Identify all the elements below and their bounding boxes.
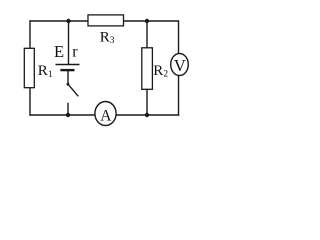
svg-text:E: E: [54, 42, 64, 61]
resistor R3: [88, 15, 124, 26]
ammeter A: [95, 102, 116, 126]
battery E,r short thick plate: [60, 69, 74, 71]
node top R2 junction: [145, 19, 149, 23]
node bottom switch junction: [66, 113, 70, 117]
switch pivot: [67, 83, 70, 86]
battery E,r long plate: [56, 64, 80, 66]
wire switch to bottom: [67, 103, 69, 115]
svg-text:A: A: [100, 108, 112, 125]
wire left: [29, 20, 31, 115]
svg-text:r: r: [72, 44, 78, 61]
wire top: [29, 20, 178, 22]
resistor R2: [142, 48, 153, 90]
node bottom R2 junction: [145, 113, 149, 117]
svg-text:V: V: [174, 56, 186, 75]
switch blade: [68, 84, 78, 96]
node top battery junction: [66, 19, 70, 23]
wire battery branch upper: [68, 21, 70, 65]
voltmeter V: [171, 54, 189, 76]
wire bottom: [29, 114, 179, 116]
resistor R1: [24, 48, 34, 87]
wire R2 branch: [146, 21, 148, 115]
wire right (voltmeter branch): [178, 20, 180, 115]
wire battery to switch: [67, 70, 69, 84]
